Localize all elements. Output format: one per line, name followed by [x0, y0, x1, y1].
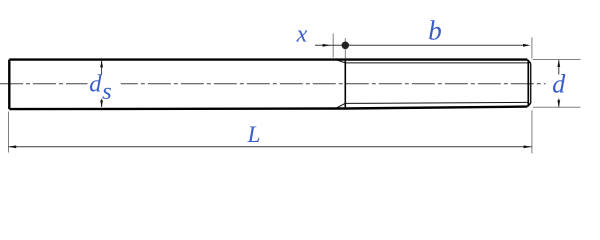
- svg-text:x: x: [296, 22, 308, 48]
- svg-text:d: d: [89, 71, 102, 98]
- svg-text:s: s: [102, 78, 112, 105]
- svg-text:L: L: [247, 122, 261, 147]
- svg-text:b: b: [428, 16, 442, 46]
- svg-text:d: d: [552, 70, 566, 99]
